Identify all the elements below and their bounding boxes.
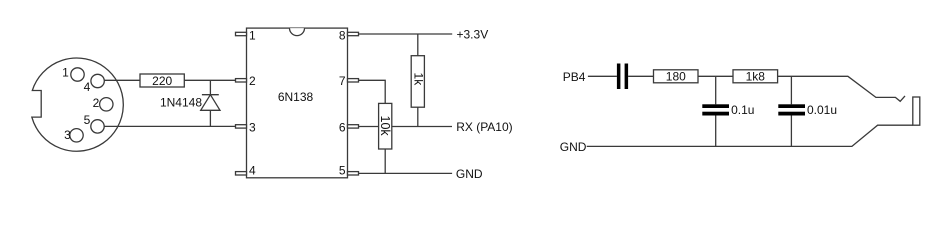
capacitor C1 xyxy=(617,64,628,90)
wire U1 pin 8 to +3.3V xyxy=(359,33,453,35)
wire resistor 220 to U1 pin 2 xyxy=(184,79,235,81)
svg-text:2: 2 xyxy=(93,96,100,110)
wire +3.3V rail to R2 top xyxy=(417,34,419,56)
svg-text:10k: 10k xyxy=(378,116,392,137)
svg-text:PB4: PB4 xyxy=(563,70,586,84)
wire resistor 1k8 to jack tip xyxy=(778,76,905,101)
svg-text:180: 180 xyxy=(666,70,686,84)
DIN connector J1 outline xyxy=(32,58,124,151)
wire junction to C2 top xyxy=(715,76,717,104)
svg-text:GND: GND xyxy=(456,167,483,181)
wire U1 pin 7 to R3 top xyxy=(359,80,386,103)
capacitor C2 0.1u xyxy=(702,103,754,117)
svg-text:4: 4 xyxy=(84,80,91,94)
connector J2 jack plug body xyxy=(913,97,920,125)
wire junction to C3 top xyxy=(790,76,792,104)
wire U1 pin 5 to GND xyxy=(359,172,453,174)
resistor R3 10k xyxy=(378,103,392,149)
svg-text:1k8: 1k8 xyxy=(746,70,766,84)
wire R2 bottom to RX wire xyxy=(417,107,419,126)
wire C3 bottom to GND rail xyxy=(790,116,792,147)
resistor R2 1k xyxy=(411,56,425,107)
svg-text:0.1u: 0.1u xyxy=(731,103,754,117)
U1 pin 1 xyxy=(236,28,257,42)
wire DIN pin5 to U1 pin 3 xyxy=(104,125,235,127)
DIN pin 5 xyxy=(84,113,105,133)
wire GND rail to jack sleeve xyxy=(587,125,913,146)
resistor R5 1k8 xyxy=(733,70,778,84)
U1 pin 8 xyxy=(339,28,359,42)
svg-text:2: 2 xyxy=(249,74,256,88)
svg-text:4: 4 xyxy=(249,164,256,178)
resistor R4 180 xyxy=(654,70,699,84)
svg-text:5: 5 xyxy=(84,113,91,127)
U1 pin 3 xyxy=(236,121,257,135)
diode D1 1N4148 xyxy=(160,80,220,126)
svg-text:1: 1 xyxy=(249,28,256,42)
svg-text:8: 8 xyxy=(339,28,346,42)
U1 pin 7 xyxy=(339,74,359,88)
optocoupler U1 6N138 body xyxy=(247,28,348,178)
svg-text:5: 5 xyxy=(339,164,346,178)
wire C2 bottom to GND rail xyxy=(715,116,717,147)
capacitor C3 0.01u xyxy=(778,103,837,117)
wire U1 pin 6 to RX (PA10) xyxy=(359,126,453,128)
U1 pin 6 xyxy=(339,121,359,135)
wire DIN pin4 to resistor 220 xyxy=(104,79,140,81)
svg-text:0.01u: 0.01u xyxy=(807,103,837,117)
U1 pin 5 xyxy=(339,164,359,178)
svg-text:RX (PA10): RX (PA10) xyxy=(456,120,512,134)
DIN pin 3 xyxy=(64,128,83,142)
wire resistor 180 to resistor 1k8 xyxy=(698,75,733,77)
svg-text:7: 7 xyxy=(339,74,346,88)
DIN pin 2 xyxy=(93,96,113,111)
DIN pin 4 xyxy=(84,74,105,94)
wire R3 bottom to GND rail xyxy=(384,149,386,173)
svg-text:1: 1 xyxy=(62,66,69,80)
svg-text:GND: GND xyxy=(560,140,587,154)
DIN pin 1 xyxy=(62,66,84,82)
U1 pin 4 xyxy=(236,164,257,178)
svg-text:3: 3 xyxy=(249,121,256,135)
wire C1 to resistor 180 xyxy=(628,75,653,77)
svg-text:6N138: 6N138 xyxy=(278,90,314,104)
svg-text:6: 6 xyxy=(339,121,346,135)
svg-text:1N4148: 1N4148 xyxy=(160,96,202,110)
svg-text:3: 3 xyxy=(64,128,71,142)
svg-text:1k: 1k xyxy=(412,73,426,87)
svg-text:+3.3V: +3.3V xyxy=(457,28,489,42)
svg-text:220: 220 xyxy=(152,74,172,88)
wire PB4 to C1 xyxy=(588,75,617,77)
U1 pin 2 xyxy=(236,74,257,88)
resistor 220 xyxy=(140,74,184,88)
